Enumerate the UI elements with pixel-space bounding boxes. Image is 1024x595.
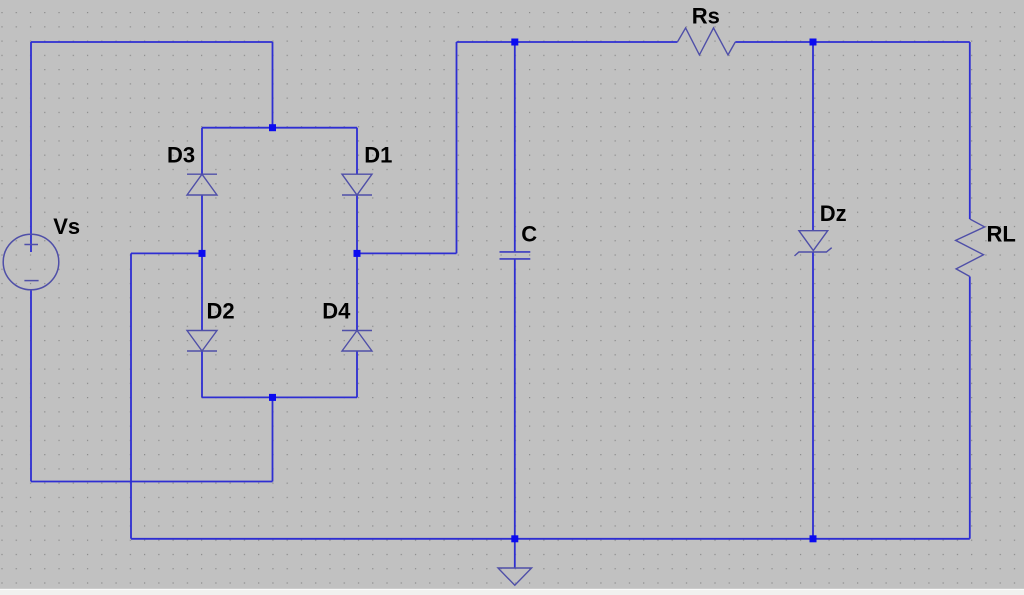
junction left mid node bbox=[199, 250, 206, 257]
ground bbox=[498, 568, 532, 585]
diode D1 bbox=[342, 174, 372, 195]
resistor RL bbox=[956, 219, 985, 277]
zener diode Dz bbox=[795, 231, 832, 256]
wire D3 lower lead bbox=[201, 195, 203, 253]
junction C top node bbox=[511, 39, 518, 46]
svg-text:C: C bbox=[521, 222, 537, 247]
wire riser to bridge bottom bbox=[272, 397, 274, 481]
wire Vs bottom lead bbox=[30, 290, 32, 482]
wire Dz upper lead bbox=[812, 42, 814, 231]
diode D3 bbox=[187, 174, 217, 195]
wire top rail drop to bridge bbox=[272, 42, 274, 128]
capacitor C bbox=[500, 252, 531, 259]
wire RL lower lead bbox=[969, 277, 971, 539]
svg-text:Dz: Dz bbox=[820, 201, 847, 226]
wire Vs top lead bbox=[30, 42, 32, 252]
wire top-left rail bbox=[31, 41, 273, 43]
resistor Rs bbox=[677, 28, 735, 55]
wire bottom-left horizontal bbox=[31, 481, 273, 483]
wire D1 upper lead bbox=[356, 128, 358, 175]
wire D3 upper lead bbox=[201, 128, 203, 175]
wire C upper lead bbox=[514, 42, 516, 251]
wire Dz lower lead bbox=[812, 252, 814, 539]
svg-text:D2: D2 bbox=[207, 299, 235, 324]
svg-text:D1: D1 bbox=[364, 143, 392, 168]
wire bottom rail bbox=[131, 538, 970, 540]
wire mid-right horizontal bbox=[357, 252, 457, 254]
junction ground node bbox=[511, 535, 518, 542]
wire D2 lower lead bbox=[201, 351, 203, 397]
wire mid-left horizontal bbox=[131, 252, 202, 254]
wire D4 upper lead bbox=[356, 253, 358, 330]
svg-text:D4: D4 bbox=[322, 299, 351, 324]
wire D2 upper lead bbox=[201, 253, 203, 330]
wire ground stub bbox=[514, 539, 516, 568]
wire riser to top rail bbox=[456, 42, 458, 253]
wire left drop bbox=[130, 253, 132, 538]
junction bridge top node bbox=[269, 124, 276, 131]
diode D2 bbox=[187, 331, 217, 352]
wire bridge bottom horizontal bbox=[202, 396, 357, 398]
svg-text:Rs: Rs bbox=[692, 3, 720, 28]
wire D1 lower lead bbox=[356, 195, 358, 253]
junction Dz top node bbox=[810, 39, 817, 46]
svg-text:RL: RL bbox=[987, 222, 1016, 247]
svg-text:D3: D3 bbox=[167, 143, 195, 168]
junction Dz bottom node bbox=[810, 535, 817, 542]
wire RL upper lead bbox=[969, 42, 971, 219]
wire D4 lower lead bbox=[356, 351, 358, 397]
voltage source Vs bbox=[3, 234, 59, 290]
wire top rail to Rs bbox=[457, 41, 678, 43]
junction bridge bottom node bbox=[269, 394, 276, 401]
status strip bbox=[0, 589, 1024, 590]
wire bridge top horizontal bbox=[202, 127, 357, 129]
wire C lower lead bbox=[514, 259, 516, 539]
svg-text:Vs: Vs bbox=[53, 214, 80, 239]
wire top rail from Rs bbox=[735, 41, 970, 43]
junction right mid node bbox=[354, 250, 361, 257]
diode D4 bbox=[342, 331, 372, 352]
